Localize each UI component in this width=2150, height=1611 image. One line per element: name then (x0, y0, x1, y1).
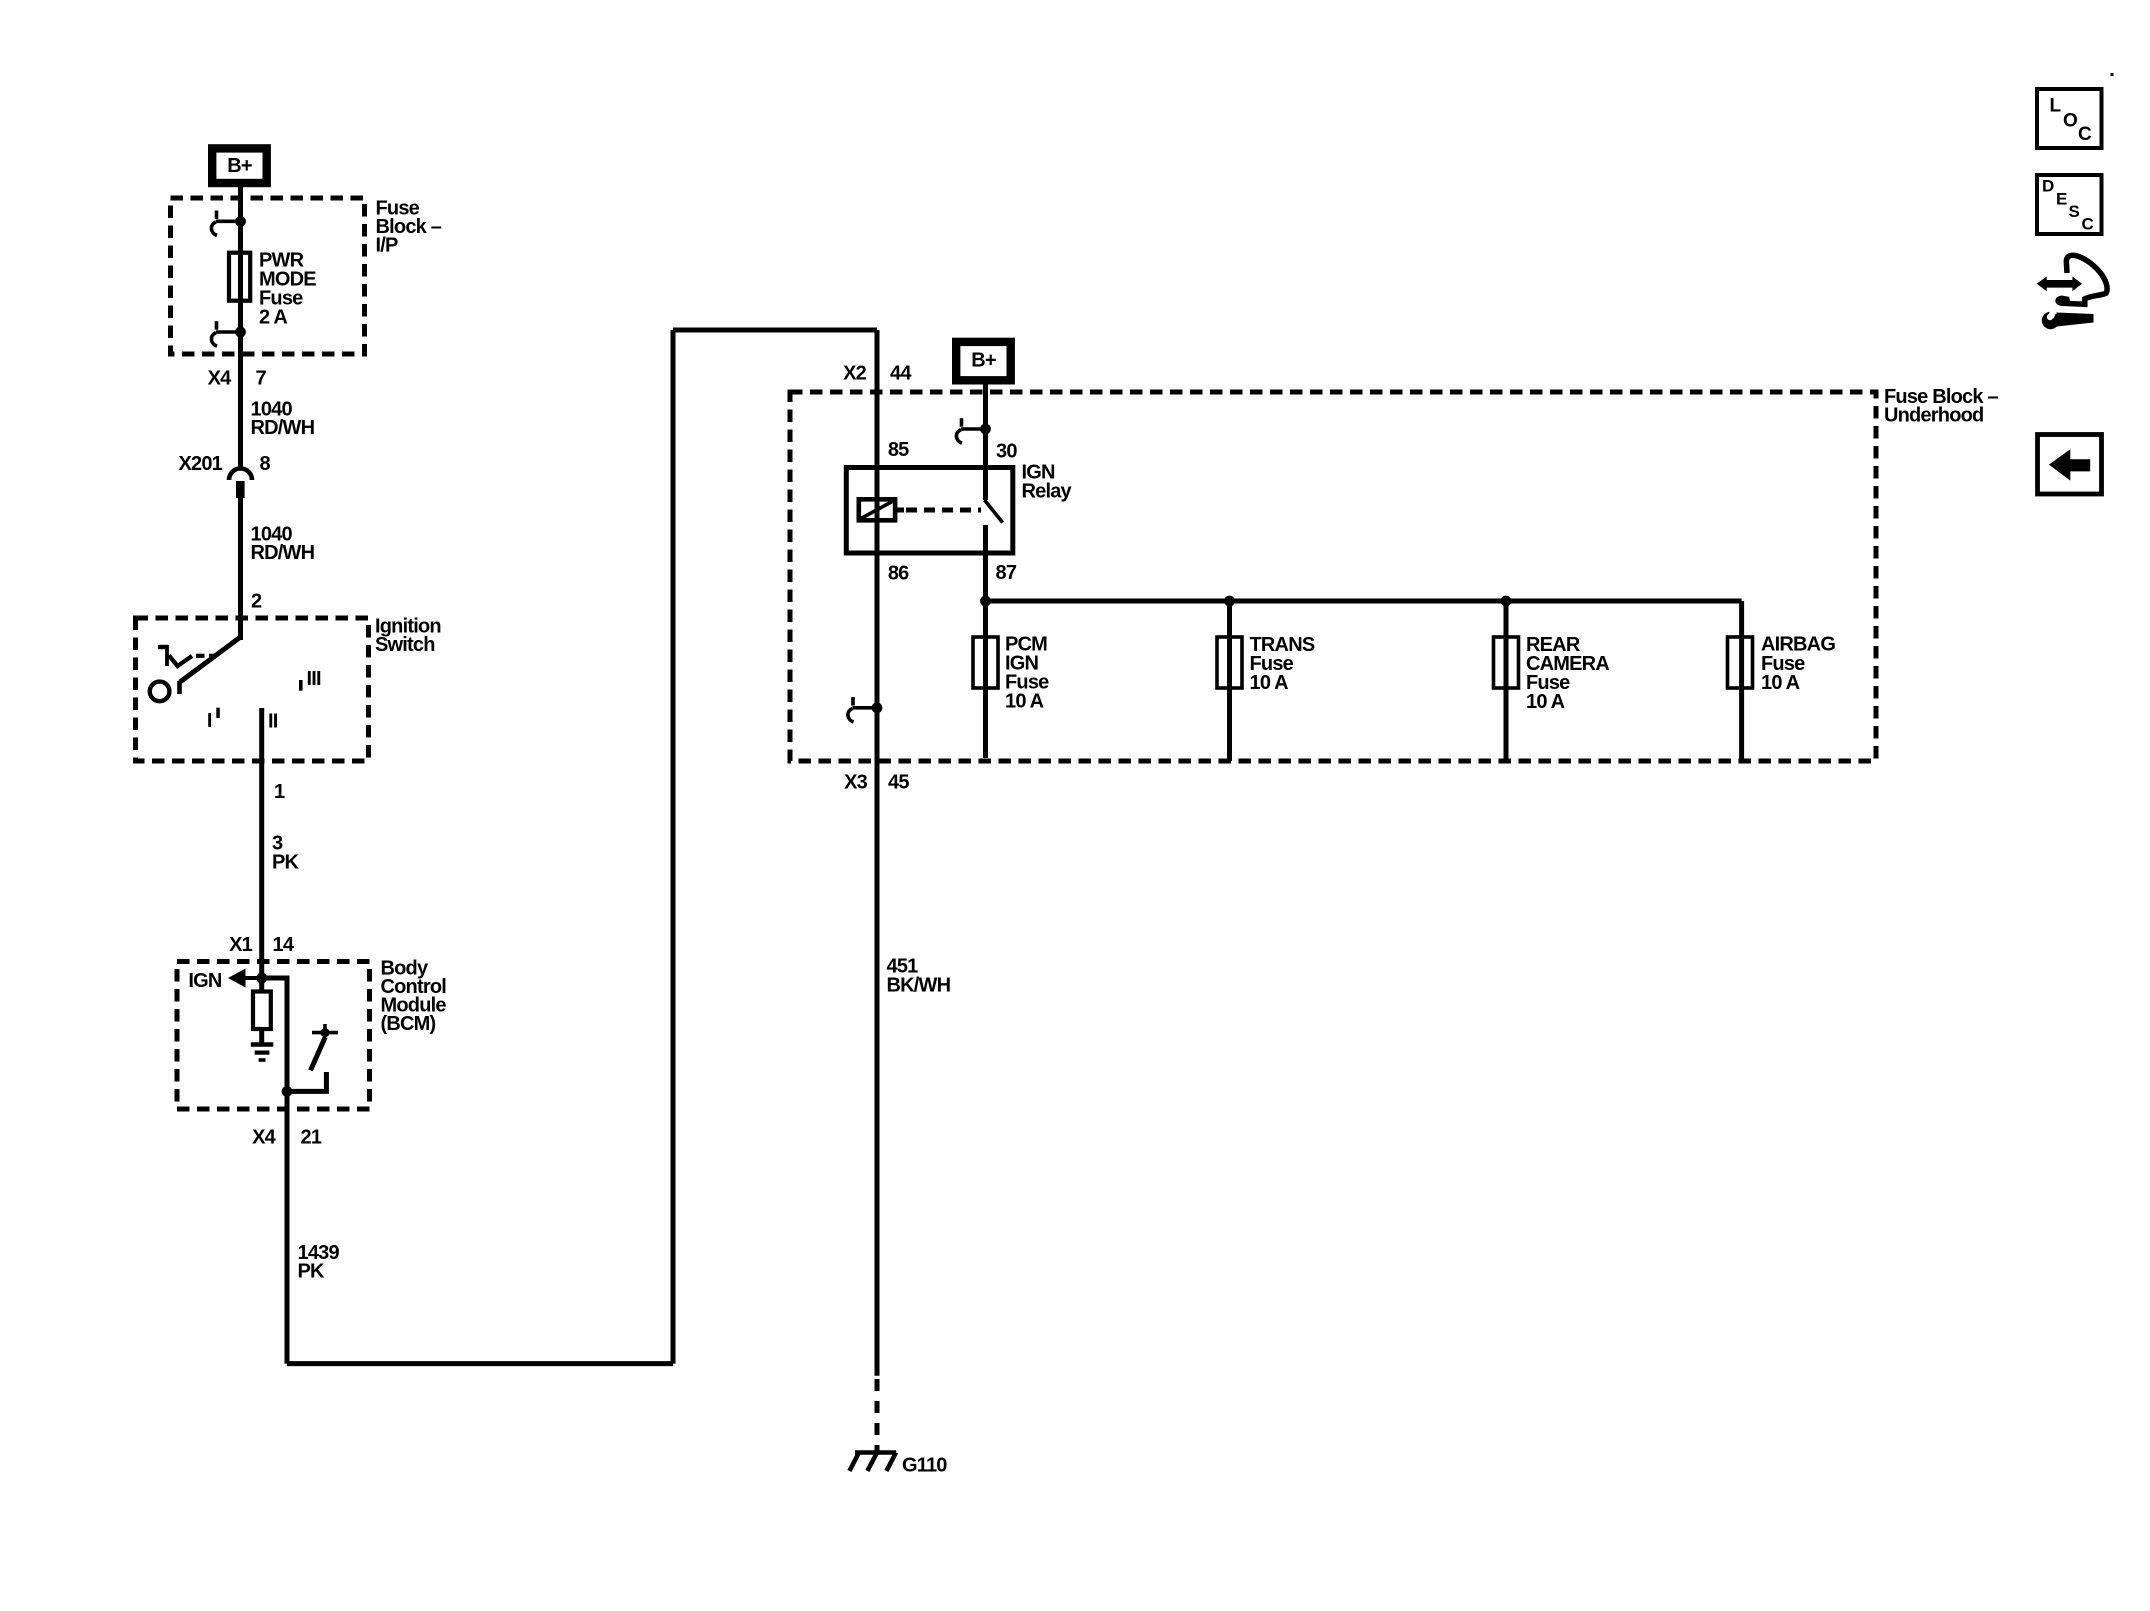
svg-text:G110: G110 (902, 1455, 947, 1477)
junction at TRANS fuse tap (1224, 596, 1235, 607)
svg-text:I/P: I/P (376, 235, 399, 257)
DESC icon box (2037, 175, 2102, 234)
wire to relay pin 85 through X2-44 (875, 330, 880, 761)
wire BCM X4-21 down (285, 1091, 290, 1363)
LOC icon box (2037, 89, 2102, 148)
wire label 3 PK (272, 833, 300, 874)
wire REAR CAMERA fuse branch (1504, 601, 1509, 761)
junction at BCM X1-14 input (256, 973, 267, 984)
svg-text:C: C (2078, 124, 2092, 145)
fuse TRANS label (1250, 634, 1315, 694)
svg-text:C: C (2082, 215, 2094, 234)
svg-text:PK: PK (272, 852, 300, 874)
BCM label (381, 958, 447, 1036)
svg-text:RD/WH: RD/WH (251, 417, 315, 439)
relay switch arm (985, 500, 1003, 601)
fuse REAR CAMERA (1494, 637, 1519, 688)
fuse block I/P label (376, 198, 442, 257)
svg-text:II: II (268, 711, 278, 733)
fuse PCM IGN label (1005, 634, 1049, 713)
wire from B+ to relay pin 30 (983, 384, 988, 500)
svg-text:Underhood: Underhood (1884, 405, 1983, 427)
wire 1439 PK routing bottom (287, 1361, 673, 1366)
BCM internal switch (287, 1024, 338, 1091)
fuse PWR MODE label (259, 250, 316, 329)
wire label 1439 PK (298, 1242, 340, 1283)
svg-text:PK: PK (298, 1261, 326, 1283)
svg-text:14: 14 (273, 934, 295, 956)
svg-text:E: E (2056, 190, 2067, 209)
svg-text:44: 44 (890, 363, 912, 385)
svg-text:X3: X3 (844, 772, 868, 794)
ignition switch lever (180, 637, 241, 694)
svg-text:X4: X4 (208, 368, 233, 390)
svg-text:X201: X201 (178, 453, 222, 475)
junction at relay 87 bus (980, 596, 991, 607)
connector X1 pin 14 label (229, 934, 295, 956)
fuse block I/P module box (171, 198, 365, 354)
wire label 451 BK/WH (887, 956, 951, 997)
svg-text:X4: X4 (252, 1127, 277, 1149)
svg-text:21: 21 (301, 1127, 322, 1149)
fuse PWR MODE 2A (229, 253, 250, 301)
svg-text:85: 85 (888, 439, 909, 461)
svg-text:B+: B+ (971, 350, 996, 372)
ignition switch label (375, 616, 441, 657)
svg-text:L: L (2050, 96, 2062, 117)
clip terminal at fuse block I/P input (211, 211, 245, 236)
svg-text:IGN: IGN (188, 970, 222, 992)
clip terminal at fuse block I/P output (211, 321, 245, 346)
svg-text:Relay: Relay (1022, 481, 1073, 503)
clip terminal at X3-45 (848, 697, 882, 722)
dashed wire to ground G110 (875, 1379, 880, 1452)
wire BCM junction to switch leg (262, 978, 287, 1091)
connector X2 pin 44 label (843, 363, 912, 385)
fuse AIRBAG label (1761, 634, 1835, 695)
fuse TRANS (1217, 637, 1242, 688)
connector X4 pin 21 label (252, 1127, 322, 1149)
svg-text:10 A: 10 A (1761, 672, 1800, 694)
svg-text:Switch: Switch (375, 634, 435, 656)
in-line connector X201 (229, 469, 252, 498)
connector X201 pin 8 label (178, 453, 270, 475)
wire AIRBAG fuse branch (1739, 601, 1744, 761)
fuse block underhood module box (790, 392, 1876, 761)
relay coil (859, 499, 904, 520)
svg-text:S: S (2069, 202, 2080, 221)
battery feed symbol B+ (fuse block I/P) (212, 148, 267, 183)
svg-text:1: 1 (274, 781, 285, 803)
fuse AIRBAG (1728, 637, 1753, 688)
back arrow icon box (2038, 435, 2102, 495)
svg-text:45: 45 (888, 772, 909, 794)
speck (2111, 73, 2114, 76)
svg-text:III: III (307, 668, 322, 690)
svg-text:RD/WH: RD/WH (251, 542, 315, 564)
diagram navigation icon (outline with arrows and wrench) (2037, 255, 2107, 329)
svg-text:86: 86 (888, 563, 909, 585)
wire 451 BK/WH (875, 761, 880, 1376)
IGN relay box (846, 468, 1013, 554)
fuse PCM IGN (973, 637, 998, 688)
ground G110 symbol (849, 1453, 896, 1472)
svg-text:(BCM): (BCM) (381, 1013, 436, 1035)
svg-text:O: O (2063, 111, 2078, 132)
svg-text:BK/WH: BK/WH (887, 975, 951, 997)
IGN net arrow (BCM internal) (188, 969, 261, 993)
svg-text:X1: X1 (229, 934, 253, 956)
wire TRANS fuse branch (1227, 601, 1232, 761)
wire PCM IGN fuse branch (983, 601, 988, 758)
svg-text:30: 30 (996, 441, 1017, 463)
fuse REAR CAMERA label (1526, 634, 1609, 713)
wire ignition switch pin 1 to BCM (259, 708, 264, 978)
ignition switch position mark III (299, 668, 321, 691)
svg-text:X2: X2 (843, 363, 867, 385)
svg-text:B+: B+ (227, 155, 252, 177)
fuse bus wire (986, 599, 1742, 604)
svg-text:I: I (207, 710, 212, 732)
wire label 1040 RD/WH below X201 (251, 524, 315, 565)
wire label 1040 RD/WH (251, 399, 315, 440)
wire 1439 PK routing top (673, 328, 877, 333)
fuse block underhood label (1884, 386, 1998, 427)
wire 1439 PK routing up (671, 330, 676, 1364)
junction at BCM switch output (282, 1086, 293, 1097)
IGN relay label (1022, 462, 1073, 503)
svg-text:D: D (2042, 177, 2054, 196)
connector X3 pin 45 label (844, 772, 909, 794)
battery feed symbol B+ (underhood) (956, 342, 1011, 380)
ignition switch module box (136, 618, 369, 761)
ignition switch contact circle (150, 682, 170, 702)
connector X4 pin 7 label (208, 368, 267, 390)
ignition switch position mark I (207, 708, 220, 732)
svg-text:10 A: 10 A (1526, 691, 1565, 713)
svg-text:10 A: 10 A (1005, 691, 1044, 713)
junction at REAR CAMERA fuse tap (1501, 596, 1512, 607)
BCM module box (177, 962, 370, 1110)
svg-text:2 A: 2 A (259, 307, 287, 329)
relay actuation dashed link (906, 508, 981, 513)
svg-text:87: 87 (996, 562, 1017, 584)
svg-text:7: 7 (256, 368, 267, 390)
svg-text:10 A: 10 A (1250, 672, 1289, 694)
clip terminal at relay 30 feed (956, 418, 990, 443)
svg-text:8: 8 (260, 453, 271, 475)
ignition switch lock symbol (158, 645, 216, 666)
BCM internal ground (251, 1045, 273, 1061)
svg-text:2: 2 (251, 591, 262, 613)
wire B+ to ignition switch pin 2 (238, 187, 243, 640)
BCM internal pull-down resistor (253, 978, 271, 1043)
